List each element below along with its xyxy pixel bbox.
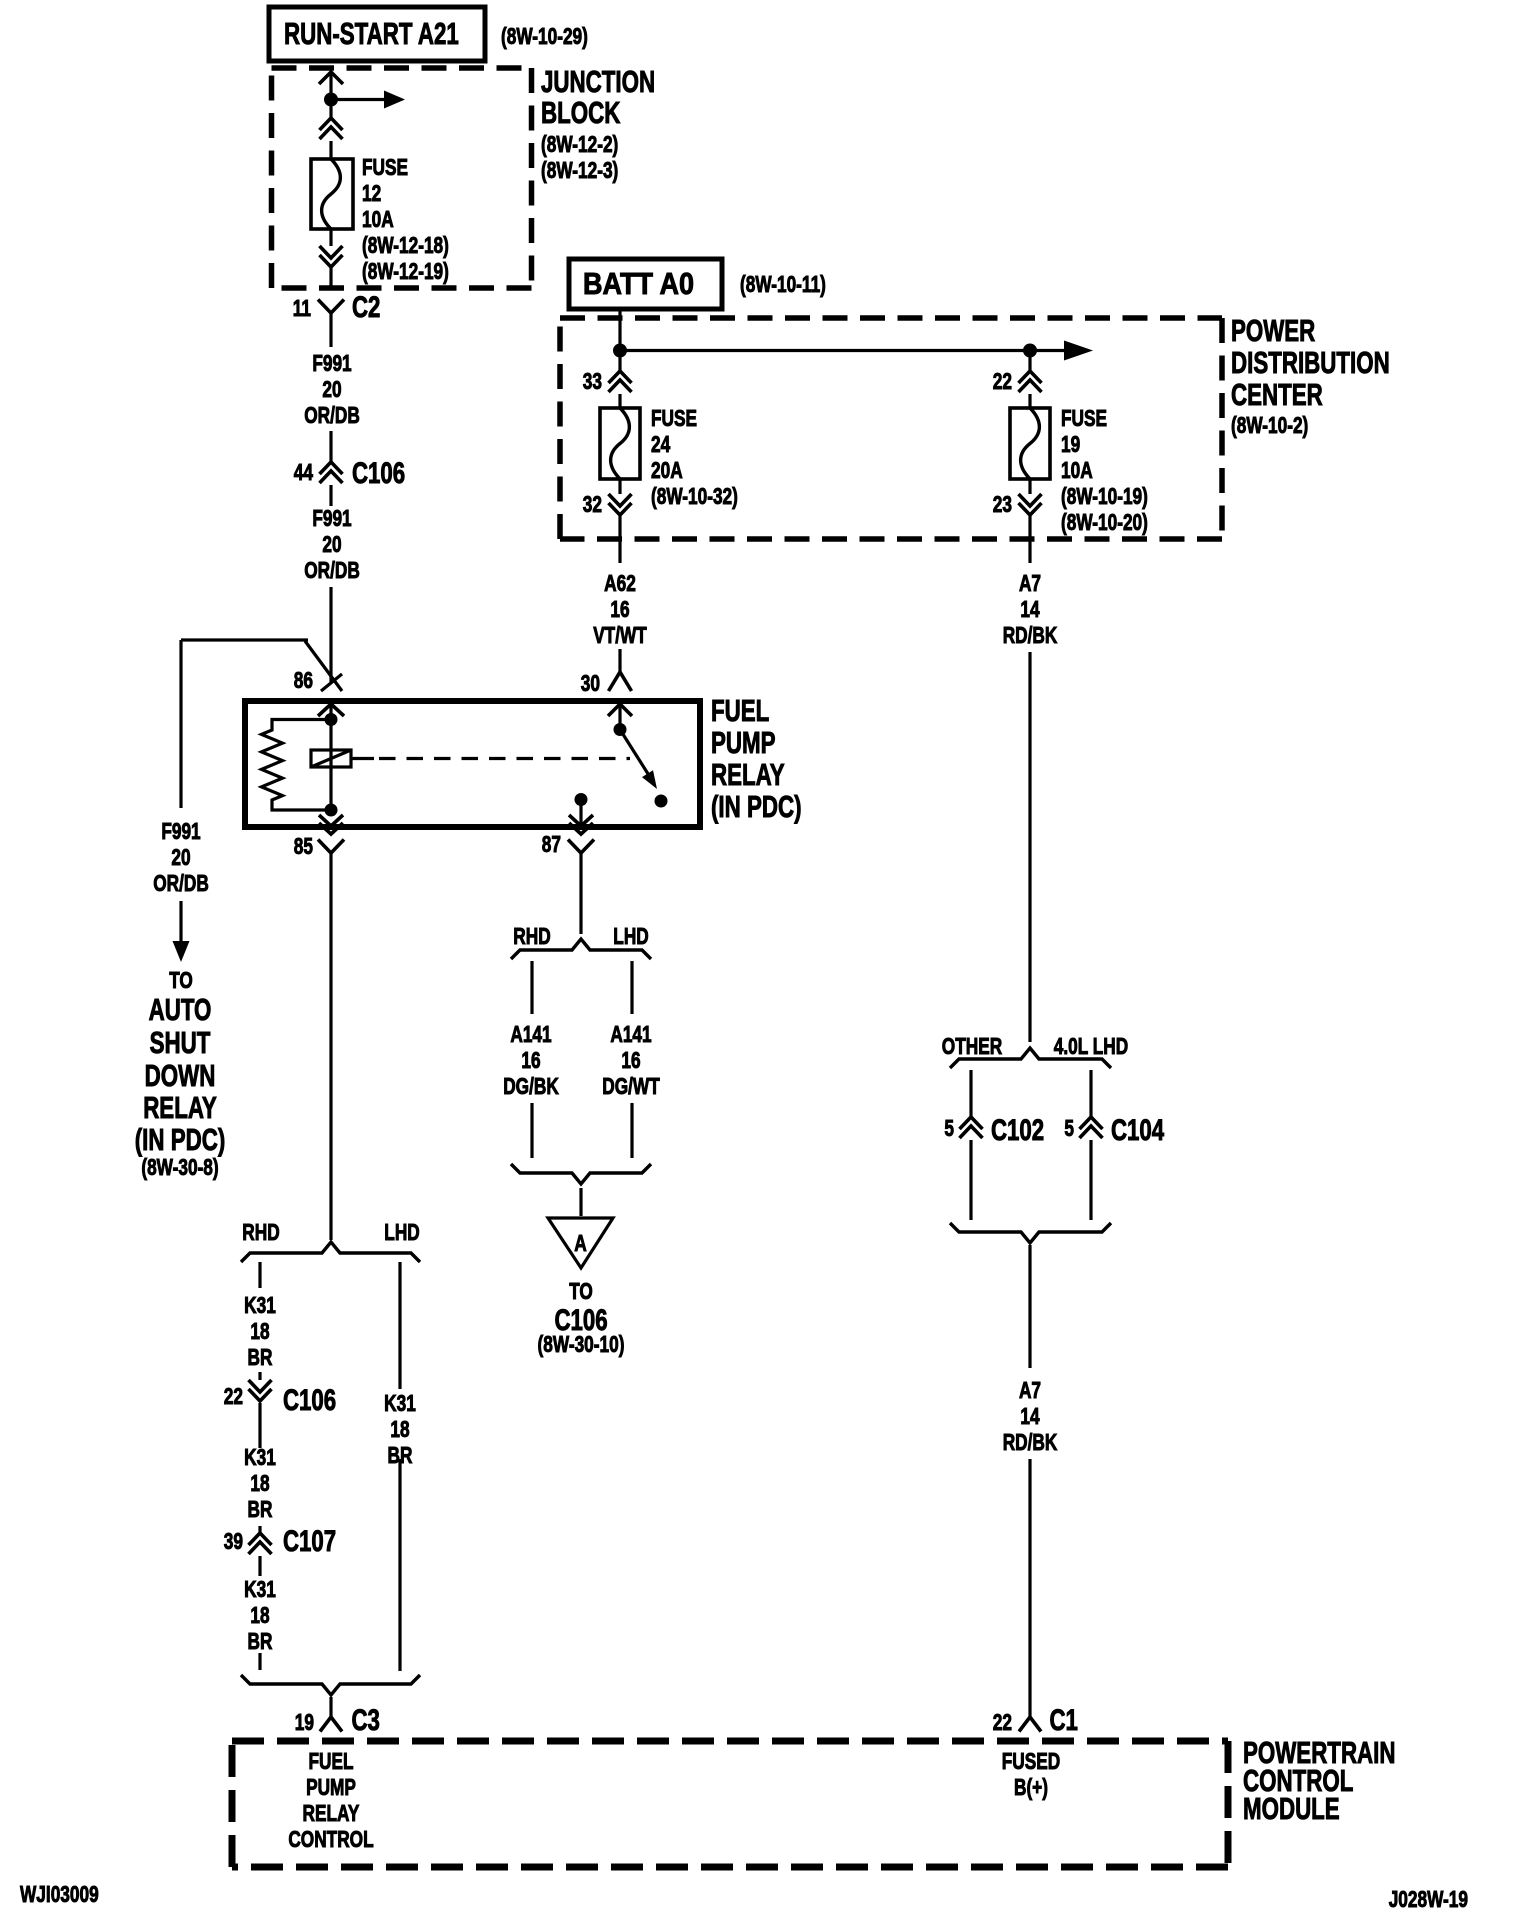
- svg-text:33: 33: [583, 368, 602, 394]
- svg-text:BATT A0: BATT A0: [583, 266, 694, 301]
- svg-text:A62: A62: [604, 570, 636, 596]
- svg-text:(8W-10-19): (8W-10-19): [1061, 483, 1148, 509]
- svg-text:K31: K31: [244, 1444, 276, 1470]
- svg-text:39: 39: [224, 1528, 243, 1554]
- svg-text:K31: K31: [384, 1390, 416, 1416]
- svg-text:(8W-12-2): (8W-12-2): [541, 131, 618, 157]
- svg-text:87: 87: [542, 831, 561, 857]
- svg-text:OR/DB: OR/DB: [304, 402, 360, 428]
- svg-text:10A: 10A: [1061, 457, 1093, 483]
- svg-text:K31: K31: [244, 1576, 276, 1602]
- svg-text:C102: C102: [991, 1114, 1044, 1147]
- svg-text:RELAY: RELAY: [143, 1090, 217, 1125]
- svg-text:18: 18: [390, 1416, 409, 1442]
- svg-text:18: 18: [250, 1470, 269, 1496]
- svg-text:CENTER: CENTER: [1231, 377, 1323, 412]
- svg-text:F991: F991: [161, 818, 200, 844]
- svg-text:16: 16: [621, 1047, 640, 1073]
- svg-text:FUEL: FUEL: [309, 1748, 354, 1774]
- svg-text:BR: BR: [248, 1628, 273, 1654]
- svg-text:FUSED: FUSED: [1002, 1748, 1061, 1774]
- svg-text:RELAY: RELAY: [711, 757, 785, 792]
- svg-text:C2: C2: [352, 291, 380, 324]
- svg-text:PUMP: PUMP: [711, 725, 776, 760]
- svg-text:11: 11: [293, 295, 311, 321]
- svg-text:5: 5: [1064, 1115, 1074, 1141]
- svg-text:(8W-10-20): (8W-10-20): [1061, 509, 1148, 535]
- svg-text:86: 86: [294, 667, 313, 693]
- svg-text:OR/DB: OR/DB: [153, 870, 209, 896]
- svg-text:BR: BR: [248, 1344, 273, 1370]
- svg-text:20: 20: [322, 376, 341, 402]
- svg-text:RD/BK: RD/BK: [1003, 1429, 1058, 1455]
- svg-text:DG/WT: DG/WT: [602, 1073, 660, 1099]
- svg-text:20A: 20A: [651, 457, 683, 483]
- svg-text:JUNCTION: JUNCTION: [541, 64, 655, 99]
- svg-text:30: 30: [581, 670, 600, 696]
- svg-text:LHD: LHD: [613, 923, 648, 949]
- svg-text:18: 18: [250, 1318, 269, 1344]
- svg-text:12: 12: [362, 180, 381, 206]
- svg-text:16: 16: [521, 1047, 540, 1073]
- svg-text:19: 19: [1061, 431, 1080, 457]
- svg-text:22: 22: [993, 368, 1012, 394]
- svg-text:F991: F991: [312, 350, 351, 376]
- svg-text:A141: A141: [610, 1021, 651, 1047]
- svg-text:DG/BK: DG/BK: [503, 1073, 559, 1099]
- svg-text:OR/DB: OR/DB: [304, 557, 360, 583]
- svg-text:16: 16: [610, 596, 629, 622]
- svg-text:RHD: RHD: [242, 1219, 279, 1245]
- svg-text:C3: C3: [352, 1704, 380, 1737]
- svg-text:F991: F991: [312, 505, 351, 531]
- svg-text:4.0L LHD: 4.0L LHD: [1054, 1033, 1128, 1059]
- svg-text:C104: C104: [1111, 1114, 1164, 1147]
- svg-text:POWER: POWER: [1231, 313, 1315, 348]
- svg-text:(8W-10-32): (8W-10-32): [651, 483, 738, 509]
- svg-text:BR: BR: [248, 1496, 273, 1522]
- svg-text:14: 14: [1020, 1403, 1039, 1429]
- svg-text:10A: 10A: [362, 206, 394, 232]
- svg-text:A141: A141: [510, 1021, 551, 1047]
- svg-text:20: 20: [322, 531, 341, 557]
- svg-text:19: 19: [295, 1709, 314, 1735]
- svg-text:(8W-10-2): (8W-10-2): [1231, 412, 1308, 438]
- svg-text:5: 5: [944, 1115, 954, 1141]
- svg-text:OTHER: OTHER: [942, 1033, 1003, 1059]
- svg-text:22: 22: [224, 1383, 243, 1409]
- svg-text:(8W-30-8): (8W-30-8): [141, 1154, 218, 1180]
- svg-text:MODULE: MODULE: [1243, 1791, 1340, 1826]
- svg-text:VT/WT: VT/WT: [593, 622, 647, 648]
- svg-text:18: 18: [250, 1602, 269, 1628]
- svg-text:A: A: [574, 1230, 587, 1256]
- svg-text:C106: C106: [352, 457, 405, 490]
- svg-text:44: 44: [294, 459, 313, 485]
- svg-text:14: 14: [1020, 596, 1039, 622]
- svg-text:TO: TO: [569, 1278, 593, 1304]
- svg-text:(8W-12-19): (8W-12-19): [362, 258, 449, 284]
- svg-text:DOWN: DOWN: [145, 1058, 216, 1093]
- svg-text:A7: A7: [1019, 570, 1041, 596]
- svg-text:C107: C107: [283, 1525, 336, 1558]
- svg-text:FUSE: FUSE: [362, 154, 408, 180]
- svg-text:C106: C106: [283, 1384, 336, 1417]
- svg-text:(IN PDC): (IN PDC): [711, 789, 802, 824]
- svg-text:RHD: RHD: [513, 923, 550, 949]
- svg-text:K31: K31: [244, 1292, 276, 1318]
- svg-text:CONTROL: CONTROL: [288, 1826, 373, 1852]
- svg-text:23: 23: [993, 491, 1012, 517]
- svg-text:20: 20: [171, 844, 190, 870]
- svg-text:24: 24: [651, 431, 670, 457]
- svg-text:BLOCK: BLOCK: [541, 95, 621, 130]
- svg-text:SHUT: SHUT: [150, 1025, 211, 1060]
- svg-text:22: 22: [993, 1709, 1012, 1735]
- svg-text:FUSE: FUSE: [1061, 405, 1107, 431]
- svg-text:RD/BK: RD/BK: [1003, 622, 1058, 648]
- svg-text:TO: TO: [169, 967, 193, 993]
- svg-text:85: 85: [294, 833, 313, 859]
- svg-text:C1: C1: [1050, 1704, 1078, 1737]
- svg-text:DISTRIBUTION: DISTRIBUTION: [1231, 345, 1390, 380]
- svg-text:J028W-19: J028W-19: [1389, 1886, 1468, 1912]
- svg-text:B(+): B(+): [1014, 1774, 1048, 1800]
- svg-text:(IN PDC): (IN PDC): [135, 1122, 226, 1157]
- svg-text:(8W-30-10): (8W-30-10): [538, 1331, 625, 1357]
- svg-text:(8W-12-18): (8W-12-18): [362, 232, 449, 258]
- svg-text:(8W-12-3): (8W-12-3): [541, 157, 618, 183]
- svg-text:FUSE: FUSE: [651, 405, 697, 431]
- svg-text:RELAY: RELAY: [303, 1800, 360, 1826]
- svg-text:PUMP: PUMP: [306, 1774, 356, 1800]
- svg-text:(8W-10-29): (8W-10-29): [501, 23, 588, 49]
- svg-text:A7: A7: [1019, 1377, 1041, 1403]
- svg-text:FUEL: FUEL: [711, 693, 769, 728]
- svg-text:32: 32: [583, 491, 602, 517]
- svg-text:(8W-10-11): (8W-10-11): [740, 271, 826, 297]
- svg-text:WJI03009: WJI03009: [20, 1881, 99, 1907]
- svg-text:RUN-START A21: RUN-START A21: [284, 16, 459, 51]
- svg-text:AUTO: AUTO: [149, 992, 212, 1027]
- svg-text:LHD: LHD: [384, 1219, 419, 1245]
